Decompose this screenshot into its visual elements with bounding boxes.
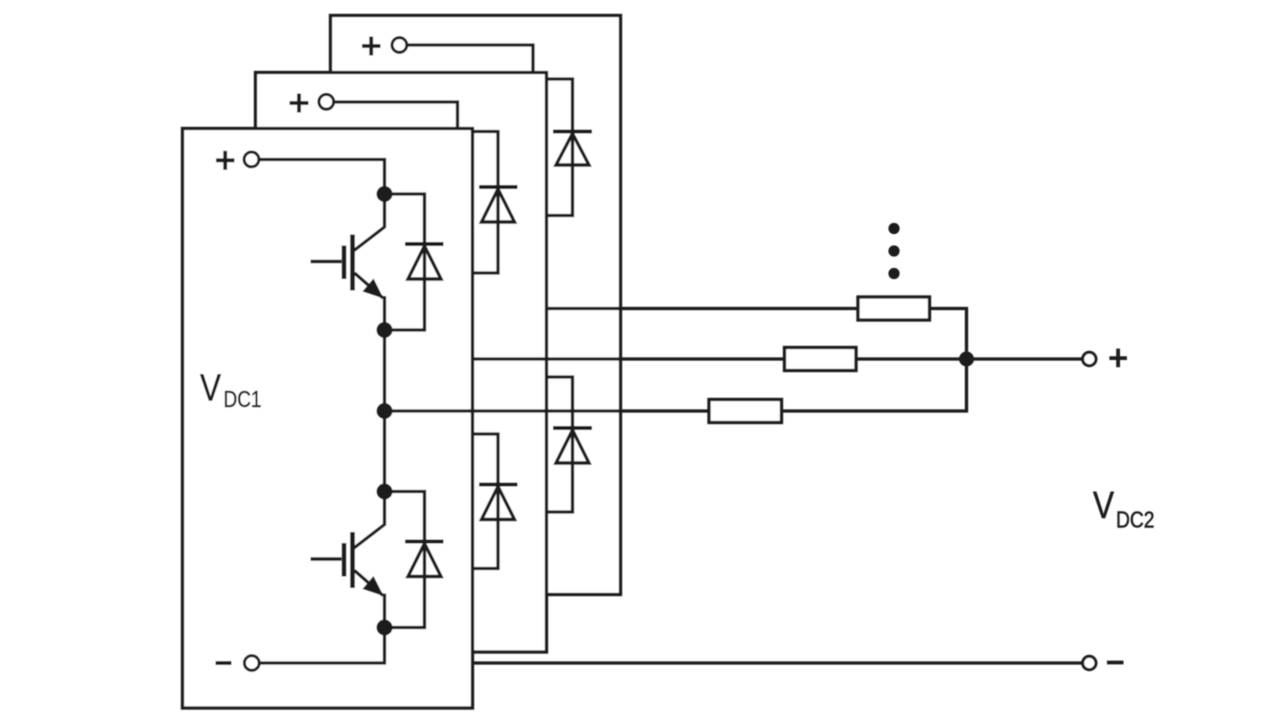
- cell 2 + terminal: [290, 94, 334, 113]
- ellipsis dots (more cells): [888, 223, 899, 279]
- wire: output line from cell1 midpoint: [385, 409, 710, 412]
- resistor R3: [858, 297, 930, 320]
- wire: midpoint to Q2 collector: [383, 411, 386, 492]
- + output terminal: [1083, 349, 1127, 368]
- label VDC2: [1093, 484, 1155, 532]
- cell 1 + terminal: [216, 151, 259, 170]
- cell 2 lower diode: [472, 434, 518, 569]
- cell 2 upper diode: [472, 132, 518, 274]
- transistor Q2 (lower IGBT): [311, 492, 385, 628]
- diode D2 (antiparallel to Q2): [385, 492, 444, 628]
- node: summing junction: [959, 352, 974, 367]
- svg-text:DC2: DC2: [1116, 506, 1155, 532]
- label VDC1: [200, 367, 262, 412]
- cell 2 (middle) outline: [256, 73, 547, 653]
- cell 3 upper diode: [547, 79, 592, 216]
- svg-text:V: V: [1093, 484, 1115, 526]
- wire: - terminal to Q2 emitter: [259, 628, 385, 664]
- transistor Q1 (upper IGBT): [311, 194, 385, 330]
- resistor R2: [785, 348, 857, 371]
- wire: cell3 + to hidden bridge: [407, 45, 534, 72]
- wire: - output bus: [474, 661, 1082, 664]
- resistor R1: [709, 400, 782, 423]
- node: midpoint junction: [377, 403, 393, 419]
- wire: cell1 + to top IGBT collector: [259, 160, 385, 195]
- wire: R2 to + output: [856, 357, 1082, 360]
- cell 1 (front) outline: [183, 129, 473, 709]
- diode D1 (antiparallel to Q1): [385, 194, 444, 330]
- wire: cell2 + to hidden bridge: [333, 102, 458, 129]
- node: Q2 emitter junction: [377, 620, 393, 636]
- wire: R3 to node: [930, 309, 967, 360]
- wire: output line from cell2 midpoint: [473, 357, 785, 360]
- svg-text:DC1: DC1: [224, 386, 262, 412]
- wire: R1 to node: [782, 359, 967, 411]
- node: top IGBT collector junction: [377, 186, 393, 202]
- wire: emitter to midpoint: [383, 330, 386, 411]
- svg-text:V: V: [200, 367, 222, 409]
- cell 3 lower diode: [547, 377, 592, 512]
- cell 1 - terminal: [216, 656, 260, 671]
- cell 3 + terminal: [362, 37, 407, 56]
- - output terminal: [1083, 656, 1124, 669]
- node: Q1 emitter junction: [377, 322, 393, 338]
- wire: output line from cell3 midpoint: [547, 307, 858, 310]
- node: Q2 collector junction: [377, 484, 393, 500]
- cell 3 (back) outline: [331, 16, 621, 595]
